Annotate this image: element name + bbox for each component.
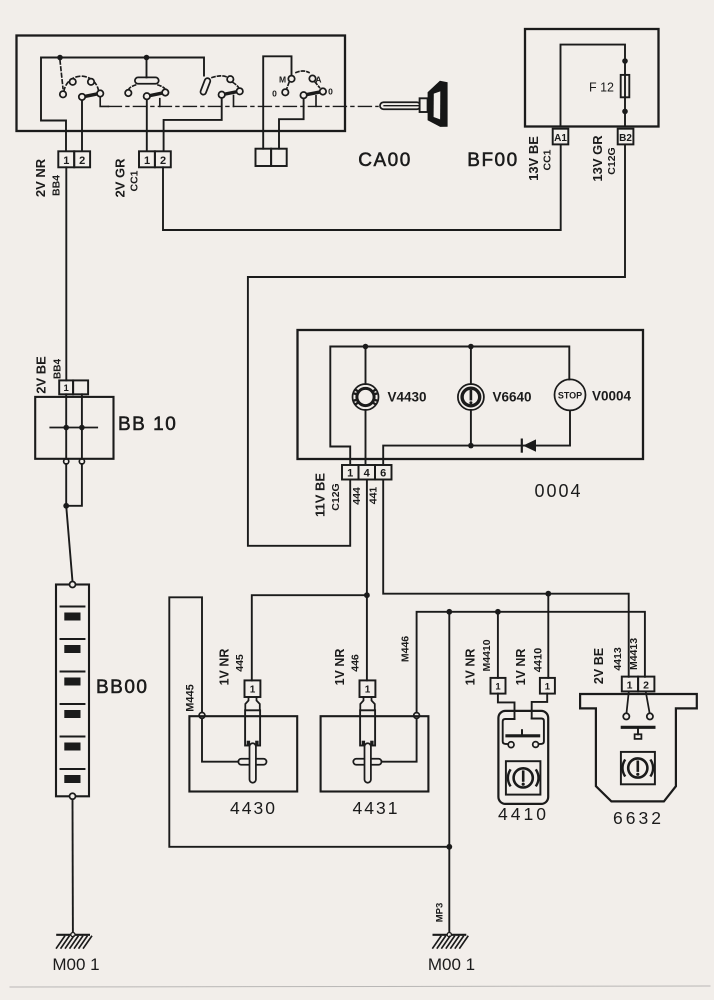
svg-text:445: 445 [234, 654, 246, 672]
box BB10 [35, 397, 113, 459]
svg-text:M00 1: M00 1 [52, 955, 99, 974]
wire 444/446: 0004 pin4 down to 4431 pin [366, 480, 368, 680]
node [468, 344, 474, 350]
wire: internal fuse link [561, 45, 626, 127]
icon frame [621, 752, 655, 784]
body 6632 [580, 694, 697, 801]
svg-text:13V GR: 13V GR [590, 135, 605, 182]
wire battery to ground [72, 799, 74, 935]
internal wires [66, 394, 82, 459]
svg-text:1V NR: 1V NR [464, 649, 478, 686]
plunger [365, 743, 371, 782]
connector pin M4410 [491, 678, 506, 694]
svg-text:441: 441 [368, 487, 380, 505]
svg-text:M00 1: M00 1 [428, 955, 475, 974]
diode [523, 439, 536, 451]
svg-text:BB00: BB00 [96, 677, 148, 698]
svg-text:2: 2 [643, 680, 649, 692]
plug neck [360, 697, 375, 710]
connector CC1 (pins 1,2) [139, 151, 171, 167]
svg-text:1: 1 [347, 467, 353, 479]
svg-text:2V BE: 2V BE [592, 648, 606, 684]
switch contacts [508, 742, 514, 748]
wire V6640 [470, 347, 472, 446]
terminal M445 [199, 713, 205, 719]
svg-text:0: 0 [272, 88, 277, 98]
wire M445 return loop [169, 597, 449, 847]
svg-text:1: 1 [495, 681, 501, 692]
box 0004 [298, 330, 644, 459]
svg-text:V0004: V0004 [592, 389, 632, 404]
connector BB4 (pins 1,2) [58, 151, 90, 167]
svg-text:2V NR: 2V NR [33, 158, 48, 197]
node splice 444/445/446 [364, 592, 370, 598]
wire M4410: bus B to 4410 pin [497, 612, 499, 678]
svg-text:M: M [279, 75, 286, 85]
svg-text:BB 10: BB 10 [118, 414, 177, 435]
wire 441: 0004 pin6 to bus A [383, 480, 629, 677]
wire M445 inside box [202, 718, 238, 762]
ground M001 right (MP3) [428, 903, 475, 974]
scan artifact line [10, 986, 710, 987]
node ground bus joins drop [446, 844, 452, 850]
switch S1 (accessory contact set) [60, 61, 109, 152]
wire 4410: bus A to 4410 pin [547, 594, 549, 678]
wire: top bus with pin1 jog [330, 347, 569, 464]
wire: central ground drop [448, 612, 450, 935]
svg-text:M4410: M4410 [481, 639, 493, 671]
sensor body [245, 710, 260, 745]
svg-text:CA00: CA00 [358, 150, 412, 171]
lamp V4430 [353, 384, 379, 410]
svg-text:C12G: C12G [606, 147, 618, 174]
svg-text:BB4: BB4 [53, 359, 64, 379]
crossbar [353, 759, 381, 765]
ground M001 left [52, 933, 99, 975]
svg-text:1: 1 [365, 685, 371, 696]
connector pin (blank) [73, 380, 88, 394]
svg-text:CC1: CC1 [129, 170, 141, 191]
svg-text:1: 1 [250, 685, 256, 696]
svg-text:6: 6 [380, 468, 386, 480]
svg-text:BB4: BB4 [50, 175, 62, 196]
connector pin 446 [360, 680, 376, 697]
brake icon [623, 758, 654, 777]
node bus B to 4410 pin1 [495, 609, 501, 615]
svg-text:M445: M445 [185, 684, 197, 712]
svg-text:1: 1 [63, 155, 69, 167]
svg-text:V6640: V6640 [493, 390, 532, 405]
wire ground bus B [417, 612, 645, 716]
svg-text:V4430: V4430 [388, 390, 427, 405]
svg-text:4: 4 [364, 468, 371, 480]
box 4431 [321, 716, 429, 791]
node bus B ground drop [446, 609, 452, 615]
plug neck [245, 697, 259, 710]
cells [61, 607, 85, 770]
wire M446 inside box [382, 718, 417, 761]
svg-text:1: 1 [144, 155, 150, 167]
svg-text:2: 2 [160, 155, 166, 167]
wire B2 to 0004 pin1 [248, 144, 625, 545]
wires below [66, 464, 82, 506]
lamp V6640 [458, 384, 484, 410]
connector pin A1 [553, 129, 569, 145]
switch bar [622, 726, 654, 729]
fuse F12 [621, 75, 630, 97]
svg-text:STOP: STOP [558, 391, 582, 401]
wire jog right [532, 694, 548, 719]
ignition key symbol [380, 81, 448, 127]
svg-text:2V GR: 2V GR [113, 158, 128, 198]
svg-text:4431: 4431 [353, 798, 400, 818]
wire: lower bus pin6 to STOP [383, 410, 570, 463]
svg-text:F 12: F 12 [589, 81, 614, 95]
wire to BB00 [66, 506, 72, 582]
svg-text:4413: 4413 [612, 647, 624, 671]
mechanical linkage dash-dot line [108, 105, 378, 107]
switch S2 (main contact set) [125, 58, 168, 152]
node: bus junction sw2 [144, 55, 150, 61]
connector pin 2 [638, 677, 654, 692]
body 4410 [498, 711, 548, 804]
wire jog left [498, 694, 515, 719]
brake icon [508, 768, 539, 787]
wire 445 bus to 4430 pin [252, 595, 367, 680]
plunger [250, 743, 256, 782]
svg-text:446: 446 [350, 654, 362, 672]
contacts [623, 713, 629, 719]
svg-text:4430: 4430 [230, 798, 277, 818]
crossbar [238, 759, 266, 765]
svg-text:0: 0 [328, 86, 333, 96]
svg-text:4410: 4410 [533, 648, 545, 672]
svg-text:M446: M446 [400, 636, 412, 662]
svg-text:MP3: MP3 [434, 903, 445, 923]
svg-text:C12G: C12G [330, 483, 342, 510]
svg-text:1V NR: 1V NR [514, 649, 528, 686]
svg-text:A1: A1 [554, 133, 567, 144]
box 4430 [189, 716, 297, 791]
svg-text:BF00: BF00 [467, 150, 518, 171]
node [363, 344, 369, 350]
inner contour [503, 719, 515, 744]
connector pin 4410 [540, 678, 555, 694]
switch S3 (starter contact with lever) [164, 76, 243, 151]
svg-text:M4413: M4413 [628, 638, 640, 670]
connector pin 1 [622, 677, 638, 692]
connector 0004 (pins 1,4,6) [342, 465, 392, 480]
lamp V0004 (STOP) [555, 379, 586, 410]
node [468, 443, 474, 449]
connector pin 1 [59, 380, 73, 394]
svg-text:444: 444 [351, 487, 363, 505]
svg-text:4410: 4410 [498, 804, 549, 824]
svg-text:CC1: CC1 [542, 149, 554, 170]
svg-text:A: A [315, 74, 321, 84]
switch bar [507, 734, 539, 737]
node [622, 58, 628, 64]
svg-text:2V BE: 2V BE [34, 356, 49, 394]
svg-text:B2: B2 [619, 133, 632, 144]
svg-text:6632: 6632 [613, 808, 664, 828]
wire V4430 [365, 347, 367, 464]
wire: internal feed bus [41, 58, 204, 152]
sensor body [360, 710, 375, 745]
svg-text:11V BE: 11V BE [313, 473, 328, 517]
svg-text:1: 1 [627, 680, 633, 692]
svg-text:1V NR: 1V NR [333, 649, 347, 686]
wire CC1 pin2 to A1 [163, 144, 561, 230]
node [622, 109, 628, 115]
connector pin 445 [245, 680, 261, 697]
wires to contacts [627, 693, 629, 714]
connector (unnumbered pair) [256, 149, 287, 166]
svg-text:1: 1 [64, 383, 70, 394]
svg-text:0004: 0004 [534, 481, 582, 501]
svg-text:13V BE: 13V BE [526, 136, 541, 181]
svg-text:1V NR: 1V NR [218, 649, 232, 686]
switch S4 (M-0-A selector) [263, 56, 326, 148]
node bus A to 4410 [545, 591, 551, 597]
box CA00 [17, 36, 346, 132]
output terminals [64, 459, 69, 464]
box BF00 [525, 29, 659, 127]
node: bus junction sw1 [57, 55, 63, 61]
icon frame [506, 761, 541, 794]
connector pin B2 [618, 129, 634, 145]
svg-text:1: 1 [545, 681, 551, 692]
terminal M446 [414, 713, 420, 719]
wire BB4 pin1 down to BB10 [65, 167, 67, 380]
svg-text:2: 2 [79, 155, 85, 167]
